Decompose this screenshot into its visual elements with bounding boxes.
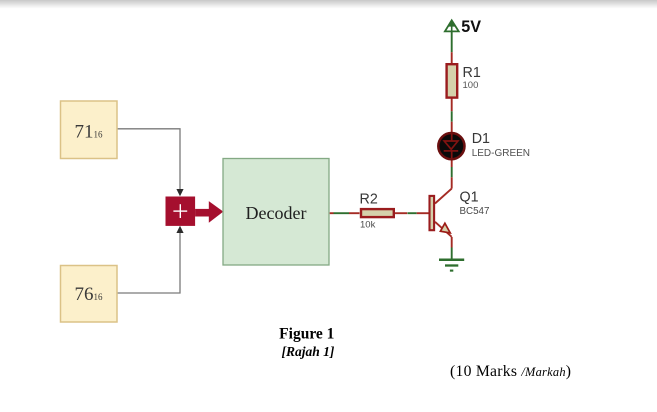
svg-text:Decoder: Decoder	[246, 203, 307, 223]
svg-text:D1: D1	[472, 131, 490, 147]
svg-text:10k: 10k	[360, 220, 376, 231]
svg-text:[Rajah 1]: [Rajah 1]	[282, 344, 335, 359]
svg-text:100: 100	[463, 80, 479, 91]
svg-text:R1: R1	[463, 65, 481, 81]
svg-text:BC547: BC547	[460, 206, 490, 217]
svg-text:R2: R2	[360, 192, 378, 208]
svg-text:LED-GREEN: LED-GREEN	[472, 148, 530, 159]
svg-text:Figure 1: Figure 1	[279, 326, 334, 343]
svg-text:5V: 5V	[461, 18, 481, 36]
svg-text:Q1: Q1	[460, 189, 479, 205]
svg-text:(10 Marks /Markah): (10 Marks /Markah)	[450, 363, 571, 380]
